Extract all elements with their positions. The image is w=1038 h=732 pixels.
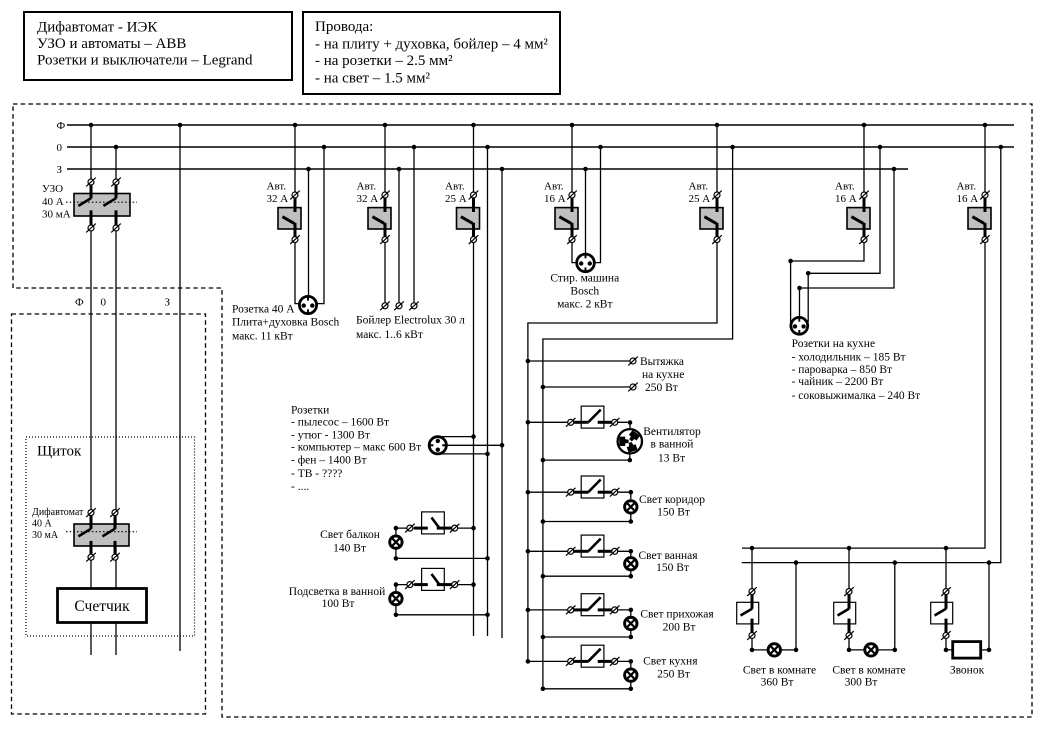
node group6 neutral — [878, 145, 883, 150]
breaker Авт. 16 А body — [847, 208, 870, 229]
group2 phase terminal — [380, 301, 390, 310]
svg-text:Дифавтомат: Дифавтомат — [32, 507, 84, 518]
RCBO body — [74, 524, 129, 546]
svg-text:УЗО и автоматы – АВВ: УЗО и автоматы – АВВ — [37, 36, 186, 52]
group6 neutral drop — [808, 147, 880, 322]
lamp room1 — [768, 644, 780, 656]
group5 neutral drop — [543, 147, 733, 689]
node group1 neutral — [322, 145, 327, 150]
node Свет ванная corner — [629, 549, 634, 554]
socket X2 розетки — [429, 437, 446, 454]
svg-text:16 А: 16 А — [544, 193, 566, 205]
panel box Щиток (dotted) — [26, 437, 195, 636]
node group7 neutral — [999, 145, 1004, 150]
node room1 return corner — [794, 648, 799, 653]
node group6 earth corner — [797, 286, 802, 291]
Свет ванная switch terminal L — [566, 547, 576, 556]
room1 switch drop — [751, 548, 753, 589]
node bell return corner — [987, 648, 992, 653]
RCD pole 2 — [115, 185, 118, 198]
svg-text:Bosch: Bosch — [570, 285, 599, 297]
breaker Авт. 25 А body — [457, 208, 480, 229]
svg-text:Авт.: Авт. — [267, 180, 287, 192]
node group5 phase — [715, 123, 720, 128]
earth bus З — [67, 168, 908, 170]
svg-text:- пылесос – 1600 Вт: - пылесос – 1600 Вт — [291, 417, 389, 429]
node Свет коридор stem corner — [629, 519, 634, 524]
svg-text:Провода:: Провода: — [315, 19, 373, 35]
Свет ванная lamp stem — [630, 571, 632, 576]
switch Свет прихожая — [581, 594, 604, 616]
group4 phase drop — [572, 125, 577, 263]
breaker 16 А input terminal — [980, 191, 990, 200]
room2 return wire — [877, 649, 895, 651]
node group3 phase — [471, 123, 476, 128]
node group4 neutral — [598, 145, 603, 150]
RCBO pole 2 — [114, 516, 117, 529]
svg-text:150 Вт: 150 Вт — [656, 562, 689, 574]
node fan phase tap — [526, 420, 531, 425]
room2 switch drop — [848, 548, 850, 589]
hood neutral stub — [543, 386, 630, 388]
group2 neutral terminal — [409, 301, 419, 310]
branch Свет коридор phase wire — [528, 491, 568, 493]
room1 switch terminal bottom — [747, 631, 757, 640]
node group6 phase — [862, 123, 867, 128]
svg-text:Свет ванная: Свет ванная — [638, 550, 698, 562]
svg-text:Подсветка в ванной: Подсветка в ванной — [289, 586, 385, 598]
svg-text:макс. 1..6 кВт: макс. 1..6 кВт — [356, 329, 423, 341]
node room2 phase tap — [847, 546, 852, 551]
fan M вентилятор — [618, 429, 642, 453]
Свет кухня return wire — [543, 688, 631, 690]
node group4 earth — [583, 167, 588, 172]
node room1 phase tap — [750, 546, 755, 551]
svg-text:40 А: 40 А — [42, 196, 64, 208]
svg-text:0: 0 — [101, 296, 107, 308]
svg-text:- соковыжималка – 240 Вт: - соковыжималка – 240 Вт — [792, 390, 921, 402]
group4 neutral drop — [594, 147, 601, 263]
node socket X2 neutral — [485, 452, 490, 457]
legend box: component brands — [24, 12, 292, 80]
RCD terminal 1 bottom — [86, 224, 96, 233]
RCD terminal 1 top — [86, 178, 96, 187]
room1 lamp feed — [752, 639, 768, 650]
Свет прихожая return wire — [543, 636, 631, 638]
breaker 16 А output terminal — [859, 235, 869, 244]
room1 return riser — [795, 563, 797, 650]
svg-text:Авт.: Авт. — [357, 180, 377, 192]
svg-text:- утюг - 1300 Вт: - утюг - 1300 Вт — [291, 429, 370, 441]
node balcony corner — [394, 526, 399, 531]
svg-text:Авт.: Авт. — [445, 180, 465, 192]
hood neutral terminal — [628, 383, 638, 392]
node group7 phase — [983, 123, 988, 128]
node room2 corner — [847, 648, 852, 653]
socket X2 розетки wires — [438, 436, 474, 438]
hood phase stub — [528, 360, 630, 362]
svg-text:Розетка 40 А: Розетка 40 А — [232, 304, 295, 316]
svg-text:30 мА: 30 мА — [32, 530, 59, 541]
group4 earth drop — [585, 169, 587, 254]
breaker 16 А output terminal — [980, 235, 990, 244]
RCBO terminal 2 top — [110, 508, 120, 517]
socket X3 стиральная машина — [577, 254, 595, 272]
bell switch terminal bottom — [941, 631, 951, 640]
svg-text:макс. 2 кВт: макс. 2 кВт — [557, 298, 612, 310]
balcony switch terminal L — [405, 524, 415, 533]
node: riser 0 tap — [114, 145, 119, 150]
node Свет кухня stem corner — [629, 687, 634, 692]
svg-text:0: 0 — [57, 142, 63, 154]
hood phase terminal — [628, 357, 638, 366]
node: riser Ф tap — [89, 123, 94, 128]
bath-light lamp stem — [395, 585, 397, 593]
phase bus Ф — [67, 124, 1014, 126]
breaker 32 А input terminal — [380, 191, 390, 200]
room2 return riser — [894, 563, 896, 650]
group3 earth drop — [501, 169, 503, 638]
RCBO dotted trip link — [66, 531, 137, 533]
node bath-light return — [485, 613, 490, 618]
svg-text:Свет в комнате: Свет в комнате — [832, 664, 905, 676]
svg-text:- чайник – 2200 Вт: - чайник – 2200 Вт — [792, 376, 884, 388]
bath-light switch terminal L — [405, 580, 415, 589]
group2 phase drop — [384, 125, 386, 303]
RCBO terminal 1 top — [86, 508, 96, 517]
Свет коридор switch terminal R — [610, 488, 620, 497]
lamp подсветка — [390, 592, 402, 604]
RCBO terminal 2 bottom — [110, 553, 120, 562]
room2 lamp feed — [849, 639, 865, 650]
breaker 25 А input terminal — [712, 191, 722, 200]
bell feed wire — [946, 639, 953, 650]
socket X1 плита — [299, 296, 316, 313]
node room1 corner — [750, 648, 755, 653]
balcony switch terminal R — [450, 524, 460, 533]
fan feed wire — [618, 422, 630, 429]
svg-text:- холодильник – 185 Вт: - холодильник – 185 Вт — [792, 351, 906, 363]
node Свет ванная neutral tap — [541, 574, 546, 579]
svg-text:Свет прихожая: Свет прихожая — [640, 609, 714, 621]
svg-text:- ТВ - ????: - ТВ - ???? — [291, 468, 342, 480]
node socket X2 phase — [471, 434, 476, 439]
node group2 phase — [383, 123, 388, 128]
svg-text:30 мА: 30 мА — [42, 209, 71, 221]
node fan return corner — [628, 458, 633, 463]
Свет прихожая switch terminal L — [566, 606, 576, 615]
svg-text:Счетчик: Счетчик — [74, 598, 130, 615]
node bath-light phase tap — [471, 582, 476, 587]
svg-text:Ф: Ф — [57, 120, 66, 132]
node balcony phase tap — [471, 526, 476, 531]
node bell phase tap — [944, 546, 949, 551]
svg-text:Плита+духовка Bosch: Плита+духовка Bosch — [232, 317, 339, 329]
svg-text:Авт.: Авт. — [544, 180, 564, 192]
node Свет коридор corner — [629, 490, 634, 495]
node bath-light corner — [394, 582, 399, 587]
group2 earth terminal — [394, 301, 404, 310]
Свет прихожая switch terminal R — [610, 606, 620, 615]
bath-light switch terminal R — [450, 580, 460, 589]
group6 phase drop — [791, 125, 864, 325]
lamp Свет прихожая — [625, 617, 637, 629]
room2 switch terminal bottom — [844, 631, 854, 640]
svg-text:Звонок: Звонок — [950, 664, 985, 676]
svg-text:32 А: 32 А — [357, 193, 379, 205]
node room1 neutral tap — [794, 560, 799, 565]
svg-text:250 Вт: 250 Вт — [645, 382, 678, 394]
Свет кухня lamp stem — [630, 683, 632, 689]
group7 phase drop — [742, 125, 985, 548]
svg-text:Розетки и выключатели – Legran: Розетки и выключатели – Legrand — [37, 53, 253, 69]
svg-text:- пароварка – 850 Вт: - пароварка – 850 Вт — [792, 364, 892, 376]
RCD terminal 2 bottom — [111, 224, 121, 233]
breaker 32 А output terminal — [380, 235, 390, 244]
node group1 earth — [306, 167, 311, 172]
node bell corner — [944, 648, 949, 653]
Свет коридор switch terminal L — [566, 488, 576, 497]
svg-text:16 А: 16 А — [835, 193, 857, 205]
node fan neutral tap — [541, 458, 546, 463]
svg-text:25 А: 25 А — [689, 193, 711, 205]
branch Свет прихожая phase wire — [528, 609, 568, 611]
svg-text:25 А: 25 А — [445, 193, 467, 205]
Свет коридор lamp feed — [618, 492, 631, 499]
meter Счетчик — [58, 589, 147, 623]
switch room2 — [834, 602, 856, 624]
node Свет прихожая neutral tap — [541, 635, 546, 640]
lamp Свет кухня — [625, 669, 637, 681]
room1 return wire — [781, 649, 797, 651]
lamp Свет коридор — [625, 501, 637, 513]
node Свет прихожая phase tap — [526, 608, 531, 613]
svg-text:Вентилятор: Вентилятор — [643, 426, 701, 438]
node group3 neutral — [485, 145, 490, 150]
svg-text:- на свет – 1.5 мм²: - на свет – 1.5 мм² — [315, 71, 431, 87]
svg-text:300 Вт: 300 Вт — [845, 677, 878, 689]
RCBO terminal 1 bottom — [86, 553, 96, 562]
switch bell — [931, 602, 953, 624]
svg-text:40 А: 40 А — [32, 518, 53, 529]
svg-text:З: З — [57, 164, 63, 176]
node Свет прихожая corner — [629, 608, 634, 613]
svg-text:150 Вт: 150 Вт — [657, 507, 690, 519]
svg-text:- компьютер – макс 600 Вт: - компьютер – макс 600 Вт — [291, 441, 421, 453]
node group5 neutral — [730, 145, 735, 150]
breaker 16 А input terminal — [859, 191, 869, 200]
svg-text:100 Вт: 100 Вт — [322, 598, 355, 610]
RCD dotted trip link — [66, 201, 137, 203]
node socket X2 earth — [500, 443, 505, 448]
Свет кухня switch terminal L — [566, 657, 576, 666]
balcony return wire — [396, 557, 488, 559]
Свет прихожая lamp feed — [618, 610, 631, 616]
breaker 25 А input terminal — [469, 191, 479, 200]
group2 neutral drop — [413, 147, 415, 303]
balcony branch wire — [396, 527, 474, 529]
svg-text:Свет коридор: Свет коридор — [639, 494, 705, 506]
breaker 16 А output terminal — [567, 235, 577, 244]
node balcony return — [485, 556, 490, 561]
node Свет прихожая stem corner — [629, 635, 634, 640]
balcony lamp stem — [395, 528, 397, 536]
svg-text:Свет балкон: Свет балкон — [320, 529, 380, 541]
node: riser З tap — [178, 123, 183, 128]
svg-text:З: З — [165, 296, 171, 308]
Свет ванная lamp feed — [618, 551, 631, 556]
breaker Авт. 32 А body — [278, 208, 301, 229]
node group4 phase — [570, 123, 575, 128]
svg-text:140 Вт: 140 Вт — [333, 542, 366, 554]
bell return riser — [988, 563, 990, 650]
node Свет ванная phase tap — [526, 549, 531, 554]
group5 phase drop — [528, 125, 717, 661]
svg-text:360 Вт: 360 Вт — [761, 677, 794, 689]
switch room1 — [737, 602, 759, 624]
fan return wire — [543, 459, 630, 461]
node Свет коридор phase tap — [526, 490, 531, 495]
svg-text:Авт.: Авт. — [835, 180, 855, 192]
switch Свет кухня — [581, 645, 604, 667]
bell return wire — [981, 649, 989, 651]
room1 switch terminal top — [747, 587, 757, 596]
group3 neutral drop — [487, 147, 489, 636]
bell switch terminal top — [941, 587, 951, 596]
Свет ванная return wire — [543, 575, 631, 577]
node group6 earth — [892, 167, 897, 172]
svg-text:на кухне: на кухне — [642, 369, 684, 381]
switch Свет ванная — [581, 535, 604, 557]
group3 phase drop — [473, 125, 475, 636]
breaker Авт. 16 А body — [968, 208, 991, 229]
switch Свет коридор — [581, 476, 604, 498]
Свет прихожая lamp stem — [630, 631, 632, 637]
bath-light return wire — [396, 614, 488, 616]
lamp room2 — [865, 644, 877, 656]
node hood neutral tap — [541, 385, 546, 390]
room2 switch terminal top — [844, 587, 854, 596]
group2 earth drop — [398, 169, 400, 303]
svg-text:Свет в комнате: Свет в комнате — [743, 664, 816, 676]
svg-text:200 Вт: 200 Вт — [663, 622, 696, 634]
svg-text:32 А: 32 А — [267, 193, 289, 205]
svg-text:16 А: 16 А — [957, 193, 979, 205]
riser wire З — [179, 125, 181, 651]
socket X4 кухня — [791, 317, 808, 334]
group1 phase drop — [295, 125, 300, 304]
breaker 32 А output terminal — [290, 235, 300, 244]
fan switch terminal R — [610, 418, 620, 427]
RCD pole 1 — [90, 185, 93, 198]
fan branch wire — [528, 421, 568, 423]
bath-light branch wire — [396, 584, 474, 586]
node Свет ванная stem corner — [629, 574, 634, 579]
breaker Авт. 16 А body — [555, 208, 578, 229]
group6 earth drop — [800, 169, 895, 321]
svg-text:- ....: - .... — [291, 481, 309, 493]
svg-text:Ф: Ф — [75, 296, 84, 308]
svg-text:Стир. машина: Стир. машина — [550, 272, 619, 284]
fan return stem — [629, 453, 631, 460]
breaker 32 А input terminal — [290, 191, 300, 200]
svg-text:250 Вт: 250 Вт — [657, 669, 690, 681]
svg-text:Щиток: Щиток — [37, 444, 82, 460]
breaker 16 А input terminal — [567, 191, 577, 200]
node Свет коридор neutral tap — [541, 519, 546, 524]
branch Свет кухня phase wire — [528, 660, 568, 662]
node group3 earth — [500, 167, 505, 172]
fan switch terminal L — [566, 418, 576, 427]
breaker Авт. 25 А body — [700, 208, 723, 229]
Свет кухня switch terminal R — [610, 657, 620, 666]
node group1 phase — [293, 123, 298, 128]
node room2 return corner — [893, 648, 898, 653]
svg-text:Бойлер Electrolux 30 л: Бойлер Electrolux 30 л — [356, 314, 465, 326]
lamp балкон — [390, 536, 402, 548]
svg-text:Авт.: Авт. — [689, 180, 709, 192]
node Свет кухня neutral tap — [541, 687, 546, 692]
node Свет кухня phase tap — [526, 659, 531, 664]
svg-text:Свет кухня: Свет кухня — [643, 656, 698, 668]
group1 neutral drop — [317, 147, 324, 304]
svg-text:13 Вт: 13 Вт — [658, 452, 685, 464]
breaker 25 А output terminal — [469, 235, 479, 244]
svg-text:- фен – 1400 Вт: - фен – 1400 Вт — [291, 454, 367, 466]
branch Свет ванная phase wire — [528, 550, 568, 552]
bell switch drop — [945, 548, 947, 589]
svg-text:Вытяжка: Вытяжка — [640, 356, 684, 368]
svg-text:Розетки на кухне: Розетки на кухне — [792, 338, 875, 350]
riser wire 0 — [115, 147, 117, 655]
lamp Свет ванная — [625, 558, 637, 570]
switch S3 вентилятор — [581, 406, 604, 428]
svg-text:УЗО: УЗО — [42, 183, 63, 195]
node Свет кухня corner — [629, 659, 634, 664]
legend box: wire cross-sections — [303, 12, 560, 94]
node room2 neutral tap — [893, 560, 898, 565]
RCBO pole 1 — [90, 516, 93, 529]
node group6 neutral corner — [806, 271, 811, 276]
Свет кухня lamp feed — [618, 661, 631, 667]
node bell neutral tap — [987, 560, 992, 565]
Свет коридор return wire — [543, 521, 631, 523]
bell HA1 звонок — [953, 642, 981, 659]
node group2 neutral — [412, 145, 417, 150]
svg-text:Дифавтомат - ИЭК: Дифавтомат - ИЭК — [37, 20, 158, 36]
RCD terminal 2 top — [111, 178, 121, 187]
riser wire Ф — [90, 125, 92, 655]
group1 earth drop — [308, 169, 310, 297]
switch S2 подсветка — [422, 568, 445, 590]
Свет ванная switch terminal R — [610, 547, 620, 556]
breaker 25 А output terminal — [712, 235, 722, 244]
node fan corner — [628, 420, 633, 425]
svg-text:Розетки: Розетки — [291, 405, 329, 417]
node group2 earth — [397, 167, 402, 172]
switch S1 балкон — [422, 512, 445, 534]
group7 neutral drop — [742, 147, 1001, 563]
neutral bus 0 — [67, 146, 1014, 148]
svg-text:в ванной: в ванной — [651, 438, 694, 450]
RCD УЗО body — [74, 194, 130, 217]
Свет коридор lamp stem — [630, 514, 632, 521]
svg-text:- на плиту + духовка, бойлер –: - на плиту + духовка, бойлер – 4 мм² — [315, 37, 548, 53]
svg-text:Авт.: Авт. — [957, 180, 977, 192]
svg-text:- на розетки – 2.5 мм²: - на розетки – 2.5 мм² — [315, 53, 453, 69]
svg-text:макс. 11 кВт: макс. 11 кВт — [232, 330, 293, 342]
node hood phase tap — [526, 359, 531, 364]
